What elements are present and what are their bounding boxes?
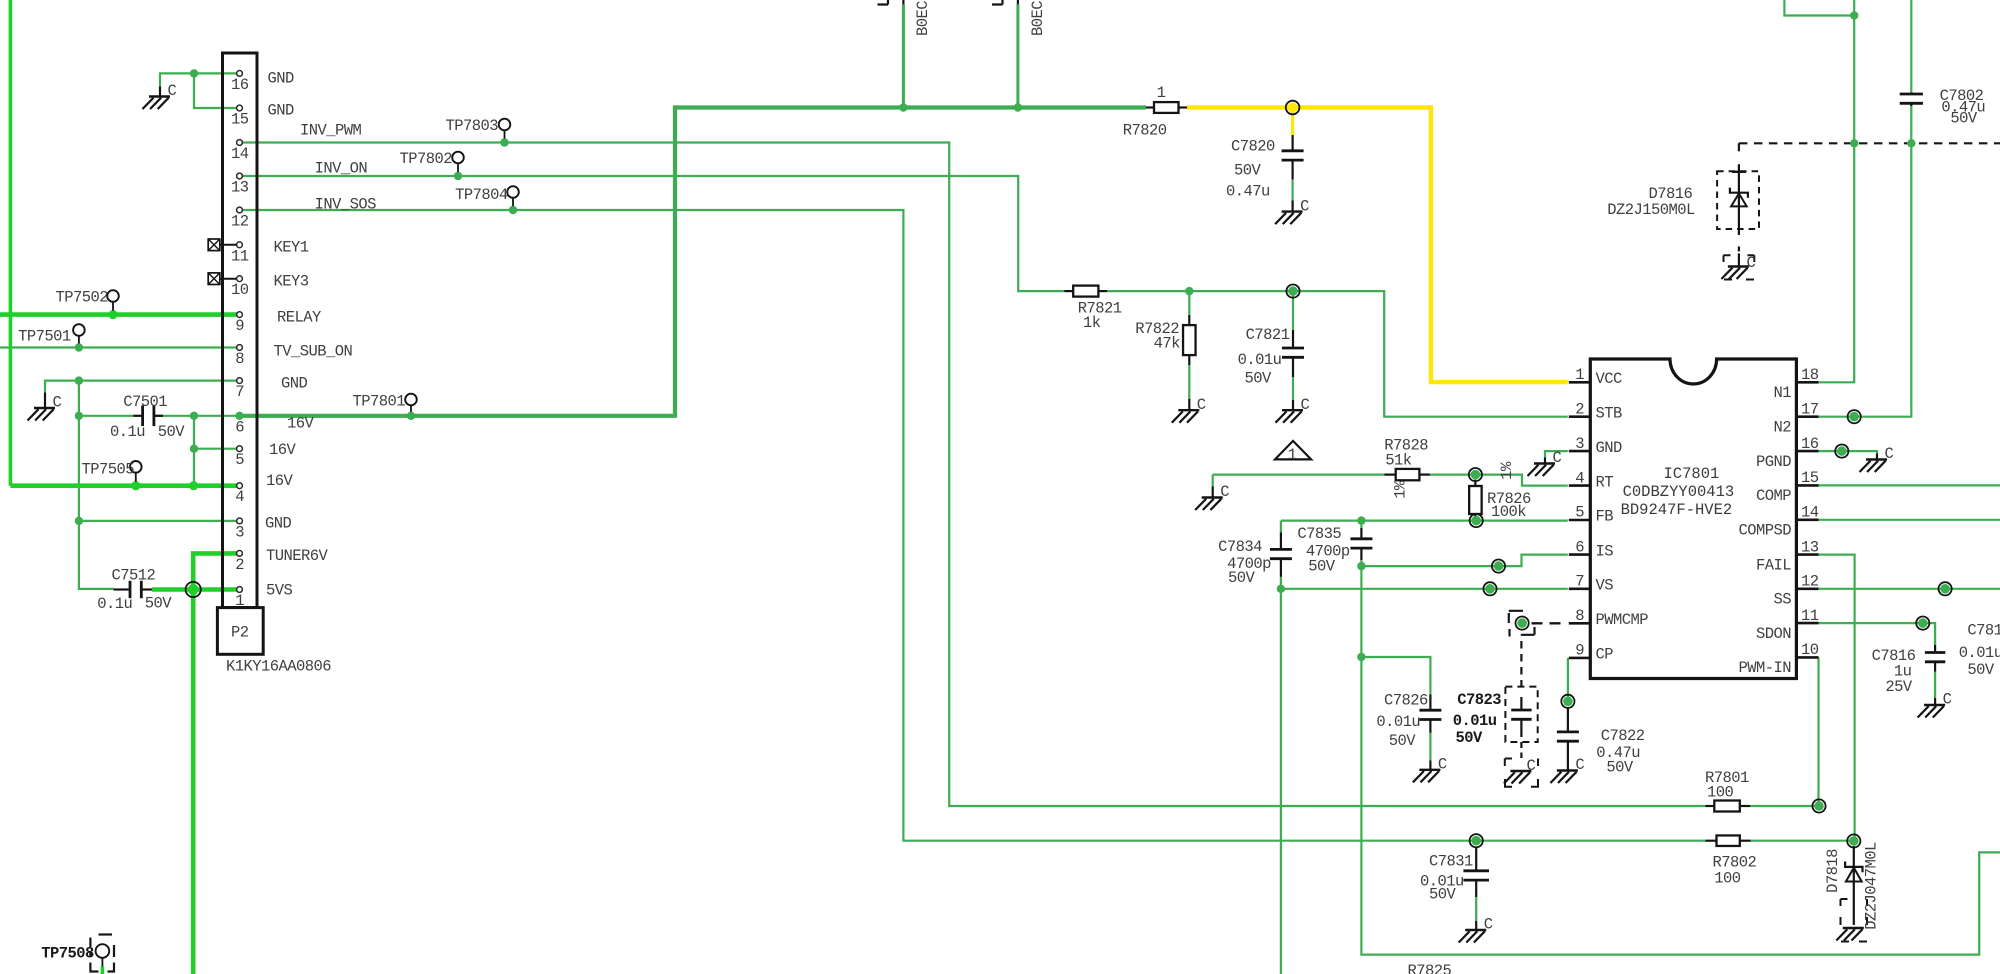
- svg-text:PGND: PGND: [1756, 453, 1791, 471]
- wire CP to C7822: [1567, 658, 1569, 701]
- label TP7804: [455, 186, 508, 204]
- wire 16V pin5 stub: [194, 448, 237, 450]
- wire RT to pin4: [1430, 475, 1568, 486]
- node C7821: [1286, 285, 1299, 298]
- dashed bracket TP7508: [90, 935, 114, 972]
- value 0.1u of C7501: [110, 423, 145, 441]
- tolerance 1% of R7826: [1498, 461, 1516, 480]
- label D7816: [1649, 185, 1693, 203]
- wire C7831 lower lead: [1475, 897, 1477, 921]
- pin number 9: [235, 317, 244, 335]
- net label KEY3: [274, 272, 309, 290]
- wire GND to ground: [160, 73, 194, 86]
- svg-text:PWMCMP: PWMCMP: [1596, 611, 1649, 629]
- wire C7826 lower lead: [1429, 733, 1431, 761]
- svg-text:K1KY16AA0806: K1KY16AA0806: [226, 658, 331, 676]
- value 50V of C7815: [1967, 661, 1995, 679]
- off-sheet tick B0EC2: [992, 0, 1018, 5]
- pin number 4: [235, 488, 244, 506]
- pin 15 COMP of IC7801: [1796, 484, 1818, 487]
- svg-text:TP7508: TP7508: [41, 945, 94, 963]
- svg-text:6: 6: [235, 418, 244, 436]
- pin number 1: [235, 592, 244, 610]
- junction N1 on shield: [1850, 139, 1858, 147]
- svg-text:2: 2: [235, 556, 244, 574]
- ground IC GND pin: [1528, 449, 1562, 476]
- label C7820: [1231, 137, 1275, 155]
- junction x194 top: [190, 412, 198, 420]
- pin number 2: [1575, 400, 1584, 418]
- connector P2 box: [217, 608, 263, 655]
- pin label SS: [1773, 591, 1791, 609]
- svg-text:C: C: [1575, 756, 1584, 774]
- svg-text:C781: C781: [1967, 622, 2000, 640]
- svg-text:C: C: [1220, 483, 1229, 501]
- svg-text:FB: FB: [1596, 508, 1614, 526]
- svg-text:PWM-IN: PWM-IN: [1738, 659, 1791, 677]
- svg-text:B0EC: B0EC: [1029, 1, 1047, 36]
- junction R7822: [1185, 287, 1193, 295]
- svg-text:10: 10: [1801, 641, 1819, 659]
- node 5VS: [186, 582, 201, 597]
- wire FAIL: [1819, 555, 1855, 841]
- svg-text:FAIL: FAIL: [1756, 556, 1791, 574]
- capacitor C7834: [1270, 532, 1292, 577]
- svg-text:TP7502: TP7502: [55, 289, 108, 307]
- svg-text:C7826: C7826: [1384, 692, 1428, 710]
- pin label FB: [1596, 508, 1614, 526]
- svg-text:9: 9: [235, 317, 244, 335]
- pin number 13: [231, 179, 249, 197]
- svg-text:7: 7: [1575, 573, 1584, 591]
- value 47k of R7822: [1154, 335, 1181, 353]
- svg-text:C7821: C7821: [1246, 326, 1290, 344]
- label TP7502: [55, 289, 108, 307]
- junction TP7802: [454, 172, 462, 180]
- test point TP7804: [507, 186, 519, 214]
- pin label N2: [1773, 418, 1791, 436]
- svg-text:0.01u: 0.01u: [1376, 713, 1420, 731]
- value 50V of C7820: [1234, 162, 1262, 180]
- pin label RT: [1596, 473, 1614, 491]
- svg-text:N2: N2: [1773, 418, 1791, 436]
- svg-text:5: 5: [235, 451, 244, 469]
- svg-text:15: 15: [231, 111, 249, 129]
- label D7818: [1824, 849, 1842, 893]
- ground C7831: [1459, 916, 1493, 943]
- no-connect KEY3: [208, 273, 236, 285]
- svg-text:C: C: [1300, 197, 1309, 215]
- tolerance 1% of R7828: [1392, 480, 1410, 499]
- svg-text:8: 8: [1575, 607, 1584, 625]
- pin number 10: [1801, 641, 1819, 659]
- svg-text:6: 6: [1575, 538, 1584, 556]
- svg-text:INV_SOS: INV_SOS: [315, 196, 377, 214]
- pin 7 VS of IC7801: [1569, 587, 1591, 590]
- resistor R7826: [1469, 480, 1482, 520]
- pin 6 of P2: [237, 413, 243, 419]
- pin 11 of P2: [237, 242, 243, 248]
- svg-text:DZ2J047M0L: DZ2J047M0L: [1863, 842, 1881, 930]
- junction pin7 wire: [75, 376, 83, 384]
- wire VS row: [1281, 588, 1568, 590]
- node FB R7826: [1470, 514, 1483, 527]
- svg-text:0.47u: 0.47u: [1226, 183, 1270, 201]
- pin label CP: [1596, 646, 1614, 664]
- wire FB to C7834 lead: [1280, 521, 1282, 589]
- label TP7505: [81, 461, 134, 479]
- label R7801: [1705, 769, 1749, 787]
- svg-text:TP7802: TP7802: [399, 150, 452, 168]
- node VCC: [1286, 101, 1300, 115]
- value 4700p of C7835: [1306, 543, 1350, 561]
- wire 16V thick bus pin6 to R7820: [242, 108, 1146, 416]
- capacitor C7826: [1419, 695, 1441, 770]
- wire RT to ground elbow: [1213, 475, 1385, 487]
- pin number 12: [231, 213, 249, 231]
- svg-text:100: 100: [1714, 870, 1741, 888]
- label C7834: [1218, 538, 1262, 556]
- label R7821: [1078, 299, 1122, 317]
- svg-text:47k: 47k: [1154, 335, 1181, 353]
- pin 4 of P2: [237, 483, 243, 489]
- pin 3 GND of IC7801: [1569, 450, 1591, 453]
- pin label COMPSD: [1738, 522, 1791, 540]
- svg-text:18: 18: [1801, 366, 1819, 384]
- svg-text:RT: RT: [1596, 473, 1614, 491]
- capacitor C7820: [1282, 135, 1304, 212]
- label R7820: [1123, 122, 1167, 140]
- net label INV_ON: [315, 160, 368, 178]
- svg-text:GND: GND: [1596, 439, 1623, 457]
- svg-text:C7831: C7831: [1429, 853, 1473, 871]
- dashed bracket D7818 ground: [1841, 899, 1868, 942]
- svg-text:C0DBZYY00413: C0DBZYY00413: [1623, 483, 1735, 501]
- pin 13 of P2: [237, 173, 243, 179]
- wire TV_SUB_ON: [0, 346, 237, 348]
- svg-text:R7825: R7825: [1408, 962, 1452, 974]
- pin number 7: [1575, 573, 1584, 591]
- part number K1KY16AA0806: [226, 658, 331, 676]
- dashed box C7823: [1505, 687, 1537, 742]
- svg-text:0.1u: 0.1u: [110, 423, 145, 441]
- capacitor C7501: [133, 406, 163, 427]
- test point TP7502: [107, 290, 119, 318]
- value 0.01u of C7831: [1420, 873, 1464, 891]
- ground C7820: [1275, 197, 1309, 224]
- junction C7835 top: [1357, 516, 1365, 524]
- label C7816: [1872, 647, 1916, 665]
- wire GND pin3: [79, 520, 237, 522]
- value 0.01u of C7815: [1959, 644, 2000, 662]
- value 25V of C7816: [1885, 678, 1913, 696]
- svg-text:8: 8: [235, 350, 244, 368]
- svg-text:0.01u: 0.01u: [1959, 644, 2000, 662]
- value 0.01u of C7826: [1376, 713, 1420, 731]
- net label GND pin16: [268, 70, 295, 88]
- junction C7501 left: [75, 412, 83, 420]
- wire 16V C7501 row: [79, 415, 237, 417]
- svg-text:0.01u: 0.01u: [1453, 712, 1497, 730]
- svg-text:11: 11: [231, 247, 249, 265]
- svg-text:B0EC: B0EC: [914, 1, 932, 36]
- svg-text:D7818: D7818: [1824, 849, 1842, 893]
- net label 16V pin6: [287, 415, 315, 433]
- svg-text:GND: GND: [268, 70, 295, 88]
- svg-text:C: C: [1527, 757, 1536, 775]
- pin label VCC: [1596, 370, 1623, 388]
- pin 2 STB of IC7801: [1569, 415, 1591, 418]
- capacitor C7822: [1557, 708, 1579, 771]
- svg-text:COMPSD: COMPSD: [1738, 522, 1791, 540]
- svg-text:15: 15: [1801, 469, 1819, 487]
- node N2: [1848, 410, 1861, 423]
- pin number 4: [1575, 469, 1584, 487]
- IC7801 part code: [1623, 483, 1735, 501]
- svg-text:50V: 50V: [145, 594, 173, 612]
- value 100 of R7801: [1707, 784, 1734, 802]
- value 0.47u of C7802: [1941, 99, 1985, 117]
- label C7501: [123, 393, 167, 411]
- junction GND pin3: [75, 517, 83, 525]
- net label B0EC 2: [1029, 1, 1047, 36]
- pin label N1: [1773, 384, 1791, 402]
- svg-text:1%: 1%: [1498, 461, 1516, 480]
- net label INV_SOS: [315, 196, 377, 214]
- wire GND pin16: [194, 72, 237, 74]
- net label GND pin3: [265, 515, 292, 533]
- pin label COMP: [1756, 487, 1791, 505]
- svg-text:C: C: [1943, 691, 1952, 709]
- pin number 7: [235, 383, 244, 401]
- wire 5VS: [152, 587, 237, 592]
- wire SDON to C7816: [1819, 623, 1936, 645]
- pin label IS: [1596, 542, 1614, 560]
- junction C7826 branch: [1357, 653, 1365, 661]
- value 100k of R7826: [1491, 503, 1526, 521]
- wire VCC yellow: [1187, 108, 1568, 383]
- net label GND pin7: [281, 374, 308, 392]
- pin number 16: [1801, 435, 1819, 453]
- pin number 5: [1575, 504, 1584, 522]
- svg-text:3: 3: [235, 523, 244, 541]
- pin 18 N1 of IC7801: [1796, 381, 1818, 384]
- wire VCC stub to C7820: [1291, 108, 1294, 136]
- label R7826: [1487, 490, 1531, 508]
- wire INV_SOS: [242, 210, 1705, 841]
- svg-text:C7512: C7512: [112, 566, 156, 584]
- wire N1 to top edge: [1819, 0, 1855, 382]
- dashed shield line: [1739, 143, 2000, 155]
- node PWM-IN R7801: [1812, 799, 1825, 812]
- ground D7818 (dashed): [1836, 928, 1864, 941]
- label TP7508: [41, 945, 94, 963]
- pin 16 PGND of IC7801: [1796, 450, 1818, 453]
- value 50V of C7826: [1389, 732, 1417, 750]
- pin 5 of P2: [237, 446, 243, 452]
- net label TUNER6V: [266, 547, 329, 565]
- svg-text:50V: 50V: [1234, 162, 1262, 180]
- pin label VS: [1596, 577, 1614, 595]
- svg-text:IS: IS: [1596, 542, 1614, 560]
- ground R7822: [1172, 396, 1206, 423]
- dashed wire PWMCMP to C7823: [1520, 641, 1522, 687]
- value 50V of C7821: [1245, 370, 1273, 388]
- value 1u of C7816: [1894, 662, 1912, 680]
- junction C7835 bottom: [1357, 562, 1365, 570]
- svg-text:5VS: 5VS: [266, 582, 293, 600]
- label C7821: [1246, 326, 1290, 344]
- node SS: [1939, 582, 1952, 595]
- value 4700p of C7834: [1227, 555, 1271, 573]
- svg-text:2: 2: [1575, 400, 1584, 418]
- wire PGND to ground: [1819, 451, 1878, 453]
- svg-text:GND: GND: [268, 102, 295, 120]
- svg-text:BD9247F-HVE2: BD9247F-HVE2: [1621, 501, 1733, 519]
- svg-text:50V: 50V: [1308, 557, 1336, 575]
- node D7818: [1847, 834, 1860, 847]
- test point TP7508: [96, 944, 110, 974]
- svg-text:C: C: [1438, 756, 1447, 774]
- capacitor C7831: [1463, 847, 1489, 930]
- pin 17 N2 of IC7801: [1796, 415, 1818, 418]
- wire B0EC 1: [902, 4, 905, 107]
- svg-text:4: 4: [1575, 469, 1584, 487]
- node RT R7826: [1469, 468, 1482, 481]
- svg-text:14: 14: [231, 145, 249, 163]
- pin number 17: [1801, 400, 1819, 418]
- svg-text:C7834: C7834: [1218, 538, 1262, 556]
- label TP7801: [352, 393, 405, 411]
- node IS: [1492, 560, 1505, 573]
- junction C7802 on shield: [1907, 139, 1915, 147]
- wire IS net vertical + bottom run: [1361, 566, 2000, 955]
- label R7825: [1408, 962, 1452, 974]
- wire IS row: [1361, 555, 1567, 567]
- wire INV_PWM: [242, 143, 1705, 807]
- junction B0EC1 on 16V bus: [899, 103, 907, 111]
- wire 5VS vertical to bottom edge: [191, 590, 196, 974]
- warning triangle 1: [1275, 441, 1311, 464]
- node C7831: [1470, 834, 1483, 847]
- pin number 1: [1575, 366, 1584, 384]
- junction 16V x194: [189, 481, 198, 490]
- net label KEY1: [274, 239, 309, 257]
- pin 8 of P2: [237, 345, 243, 351]
- svg-text:C7820: C7820: [1231, 137, 1275, 155]
- pin 3 of P2: [237, 518, 243, 524]
- value 50V of C7802: [1950, 110, 1978, 128]
- zener diode D7816: [1717, 164, 1759, 253]
- label R7828: [1384, 437, 1428, 455]
- pin number 6: [1575, 538, 1584, 556]
- part number DZ2J150M0L: [1607, 201, 1695, 219]
- off-sheet tick B0EC1: [878, 0, 904, 5]
- ground C7822: [1550, 756, 1584, 783]
- svg-text:14: 14: [1801, 504, 1819, 522]
- node VS: [1483, 582, 1496, 595]
- net label TV_SUB_ON: [274, 343, 353, 361]
- svg-text:1: 1: [1157, 84, 1166, 102]
- wire 16V pin4 row: [10, 483, 236, 488]
- junction TP7803: [500, 138, 508, 146]
- svg-text:INV_ON: INV_ON: [315, 160, 368, 178]
- wire RT-FB through R7826: [1474, 475, 1476, 521]
- svg-text:TP7801: TP7801: [352, 393, 405, 411]
- pin 9 of P2: [237, 312, 243, 318]
- svg-text:50V: 50V: [158, 423, 186, 441]
- svg-text:GND: GND: [265, 515, 292, 533]
- svg-text:KEY1: KEY1: [274, 239, 309, 257]
- wire N1 branch elbow: [1784, 0, 1854, 16]
- svg-text:SS: SS: [1773, 591, 1791, 609]
- test point TP7505: [130, 461, 142, 490]
- label C7823: [1457, 691, 1501, 709]
- net label B0EC 1: [914, 1, 932, 36]
- svg-text:C: C: [168, 82, 177, 100]
- svg-text:C7822: C7822: [1601, 727, 1645, 745]
- svg-text:51k: 51k: [1385, 452, 1412, 470]
- connector P2 body: [223, 53, 258, 608]
- pin 13 FAIL of IC7801: [1796, 553, 1818, 556]
- svg-text:C: C: [1484, 916, 1493, 934]
- ground C7816: [1918, 691, 1952, 718]
- svg-text:16: 16: [1801, 435, 1819, 453]
- capacitor C7512: [114, 581, 153, 598]
- svg-text:R7820: R7820: [1123, 122, 1167, 140]
- wire FB row: [1281, 519, 1568, 521]
- no-connect KEY1: [208, 239, 236, 251]
- svg-text:10: 10: [231, 281, 249, 299]
- svg-text:TP7803: TP7803: [445, 117, 498, 135]
- pin number 6: [235, 418, 244, 436]
- net label 16V pin4: [266, 472, 294, 490]
- capacitor C7816: [1925, 645, 1945, 705]
- node SDON: [1916, 617, 1929, 630]
- wire GND pin16 to pin15: [194, 73, 237, 108]
- resistor R7820: [1146, 102, 1187, 113]
- net label 5VS: [266, 582, 293, 600]
- node CP C7822: [1561, 695, 1574, 708]
- svg-text:50V: 50V: [1606, 759, 1634, 777]
- wire GND vertical bus left: [79, 381, 114, 589]
- pin 10 of P2: [237, 276, 243, 282]
- wire B0EC 2: [1016, 4, 1019, 107]
- IC IC7801 body: [1590, 359, 1796, 679]
- part number DZ2J047M0L: [1863, 842, 1881, 930]
- svg-text:C7835: C7835: [1297, 525, 1341, 543]
- pin 1 of P2: [237, 587, 243, 593]
- dashed bracket PWMCMP node: [1509, 611, 1535, 637]
- svg-text:1: 1: [1288, 446, 1297, 464]
- value 0.01u of C7821: [1238, 351, 1282, 369]
- wire PWM-IN to R7801: [1750, 657, 1819, 806]
- wire FB to C7835 lead: [1360, 521, 1362, 567]
- svg-text:1k: 1k: [1083, 314, 1101, 332]
- wire TUNER6V: [193, 553, 236, 589]
- pin 9 CP of IC7801: [1569, 657, 1591, 660]
- label C7802: [1940, 87, 1984, 105]
- test point TP7802: [452, 152, 464, 180]
- svg-text:4: 4: [235, 488, 244, 506]
- pin 6 IS of IC7801: [1569, 553, 1591, 556]
- pin number 15: [1801, 469, 1819, 487]
- pin 14 COMPSD of IC7801: [1796, 518, 1818, 521]
- pin label PWM-IN: [1738, 659, 1791, 677]
- value 1 of R7820: [1157, 84, 1166, 102]
- dashed wire PWMCMP: [1532, 622, 1561, 624]
- wire STB net R7821 to pin2: [1107, 291, 1568, 417]
